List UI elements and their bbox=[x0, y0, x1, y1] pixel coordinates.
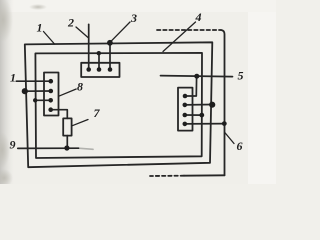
wire 5 (voltage tap) bbox=[161, 76, 233, 77]
wire 2 (supply lead) bbox=[88, 24, 90, 69]
terminal block (top) bbox=[81, 63, 119, 77]
junction node on inner loop top bbox=[97, 51, 101, 55]
terminal node on enclosure right edge bbox=[222, 121, 227, 126]
svg-text:4: 4 bbox=[195, 10, 202, 24]
wire resistor bottom lead bbox=[66, 136, 68, 148]
callout leader 3 bbox=[112, 22, 131, 41]
terminal dots in strip 8 bbox=[49, 79, 54, 84]
wire from node on inner loop left to strip 8 bbox=[35, 99, 51, 101]
wire 9 faded continuation bbox=[79, 148, 94, 149]
wire from right strip terminal 3 to node on inner loop right bbox=[185, 114, 202, 116]
junction node on outer loop left bbox=[22, 88, 28, 94]
svg-text:9: 9 bbox=[10, 138, 16, 152]
terminal strip (right) bbox=[178, 88, 193, 131]
dashed enclosure top edge bbox=[157, 29, 221, 31]
wire from node on inner loop top to terminal bbox=[98, 53, 100, 69]
terminal dots in right strip bbox=[183, 94, 188, 99]
callout leader 8 bbox=[59, 89, 76, 96]
wire 9 (bottom lead) bbox=[18, 147, 79, 149]
outer wire loop bbox=[25, 42, 213, 167]
dashed enclosure bottom edge (solid part) bbox=[184, 174, 225, 176]
callout leader 6 bbox=[225, 133, 234, 144]
resistor R7 body bbox=[63, 118, 71, 135]
svg-text:1: 1 bbox=[37, 21, 43, 35]
dashed enclosure right edge bbox=[221, 30, 225, 175]
inner wire loop bbox=[35, 53, 202, 158]
svg-text:3: 3 bbox=[130, 11, 137, 25]
svg-text:5: 5 bbox=[238, 69, 244, 83]
svg-text:6: 6 bbox=[237, 139, 243, 153]
junction node on inner loop left bbox=[33, 98, 37, 102]
wire 1 (left lead to terminal strip 8) bbox=[16, 80, 51, 82]
junction node on inner loop right bbox=[199, 113, 204, 118]
wire from strip 8 to resistor 7 bbox=[51, 110, 68, 119]
svg-text:2: 2 bbox=[67, 16, 74, 30]
svg-text:8: 8 bbox=[77, 80, 83, 94]
wire from right strip terminal 4 to enclosure edge bbox=[185, 123, 225, 125]
wire from right strip terminal 2 to node on outer loop right bbox=[185, 104, 212, 106]
terminal strip 8 (left) bbox=[44, 73, 59, 116]
junction node on outer loop right bbox=[209, 102, 215, 108]
svg-text:1: 1 bbox=[10, 71, 16, 85]
callout leader 4 bbox=[163, 22, 196, 52]
callout leader 7 bbox=[72, 120, 88, 126]
wire from right strip terminal 1 up to wire 5 bbox=[185, 76, 196, 96]
terminal dots in top block bbox=[86, 67, 91, 72]
svg-text:7: 7 bbox=[94, 106, 101, 120]
junction node on wire 9 (resistor lead) bbox=[64, 145, 69, 150]
wire from node on outer loop left to strip 8 bbox=[25, 90, 51, 92]
dashed enclosure bottom edge (dashed part) bbox=[150, 175, 184, 177]
callout leader 1 (case) bbox=[44, 32, 55, 45]
junction node on wire 5 bbox=[194, 74, 199, 79]
callout leader 2 bbox=[76, 27, 88, 38]
wire from node 3 on outer loop top to terminal bbox=[109, 43, 111, 69]
junction node 3 on outer loop top bbox=[107, 40, 113, 46]
